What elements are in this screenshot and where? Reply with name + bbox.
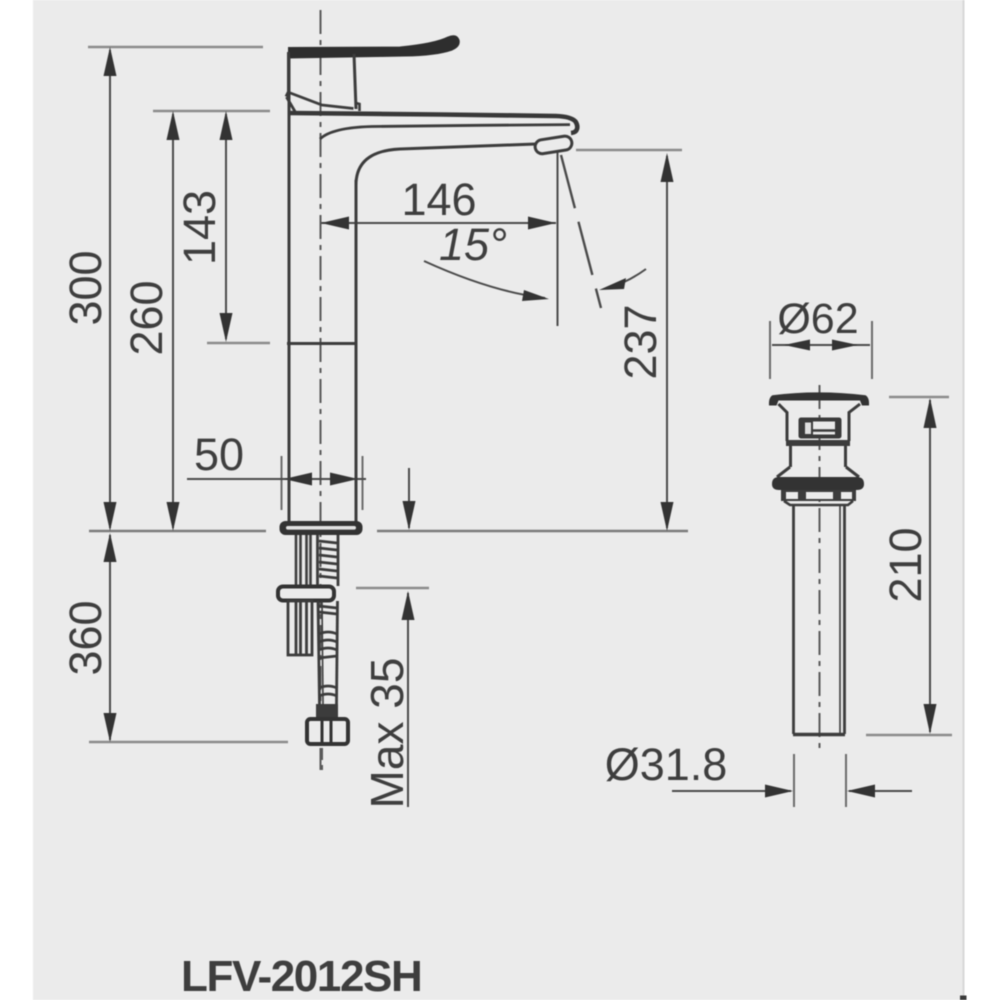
spout underside with fillet <box>356 144 536 185</box>
svg-text:210: 210 <box>880 527 931 602</box>
svg-text:LFV-2012SH: LFV-2012SH <box>181 952 421 1000</box>
drain funnel sides <box>779 404 861 441</box>
water stream 15 deg line <box>561 155 601 308</box>
210 extension top <box>889 396 949 398</box>
svg-text:237: 237 <box>615 304 666 379</box>
corner nub <box>960 996 967 1000</box>
stud sleeve below bracket <box>288 601 312 655</box>
dimension dia62 <box>772 295 870 351</box>
drain mid band <box>786 440 850 446</box>
deck line right <box>377 530 688 532</box>
dimension dia31.8 right <box>847 785 912 798</box>
dimension 300 <box>60 47 117 531</box>
centerline faucet axis <box>320 10 322 770</box>
svg-text:143: 143 <box>174 190 225 265</box>
base flange <box>280 521 363 535</box>
dimension 210 <box>880 398 937 734</box>
drain mid body <box>791 446 846 467</box>
extension line 143 bottom <box>207 342 270 344</box>
dimension 360 <box>60 533 117 742</box>
faucet column right edge <box>355 180 358 523</box>
spout second line <box>320 125 570 139</box>
extension line 237 top <box>576 149 682 151</box>
tailpipe <box>793 505 845 735</box>
slotted lock ring <box>781 490 856 505</box>
dimension 143 <box>174 111 233 342</box>
dimension Max 35 upper arrow <box>403 468 416 530</box>
hose collar <box>316 704 338 720</box>
dimension 260 <box>121 111 180 531</box>
supply hose <box>318 601 338 704</box>
210 extension bottom <box>866 734 952 736</box>
svg-text:146: 146 <box>401 174 476 225</box>
svg-text:300: 300 <box>60 250 111 325</box>
under-deck supply shank <box>318 535 339 586</box>
spout top line <box>289 113 577 133</box>
centerline below nut <box>321 748 323 770</box>
drain lower flare <box>777 467 859 477</box>
drain centerline <box>819 385 821 752</box>
extension line 300 top <box>88 46 263 48</box>
dimension dia31.8 left <box>672 785 793 798</box>
aerator drop vertical line <box>557 152 559 326</box>
aerator <box>534 135 573 155</box>
extension line 360 bottom <box>89 741 288 743</box>
dimension Max 35 lower <box>361 591 415 808</box>
dia31.8 extension lines <box>793 754 795 807</box>
faucet column left edge <box>288 57 291 523</box>
drain top cap <box>769 392 869 405</box>
drain bottom flange <box>772 477 864 490</box>
overflow window <box>799 418 842 439</box>
handle collar tab <box>356 103 360 111</box>
svg-text:Max 35: Max 35 <box>361 658 413 809</box>
svg-text:260: 260 <box>121 280 172 355</box>
svg-text:Ø31.8: Ø31.8 <box>605 739 728 790</box>
faucet handle body <box>289 52 357 109</box>
dimension 237 <box>615 153 674 531</box>
extension line max35 <box>356 587 429 589</box>
handle bottom lip <box>286 92 354 112</box>
extension line 260-143 top <box>153 110 270 112</box>
column joint line <box>287 342 356 345</box>
faucet handle lever <box>289 36 459 57</box>
svg-text:50: 50 <box>194 429 244 480</box>
15 deg arc right <box>622 269 646 283</box>
svg-text:15°: 15° <box>439 219 507 270</box>
svg-text:Ø62: Ø62 <box>777 295 858 343</box>
deck line left <box>89 530 266 532</box>
under-deck left stud <box>296 535 311 586</box>
hex nut <box>307 719 348 744</box>
svg-text:360: 360 <box>60 600 111 675</box>
mounting bracket <box>278 587 334 601</box>
15 deg arc left <box>424 261 545 298</box>
dimension 146 <box>321 174 556 230</box>
dimension 50 <box>187 429 366 510</box>
panel edge line <box>963 0 965 1000</box>
dia62 extension lines <box>769 321 771 379</box>
